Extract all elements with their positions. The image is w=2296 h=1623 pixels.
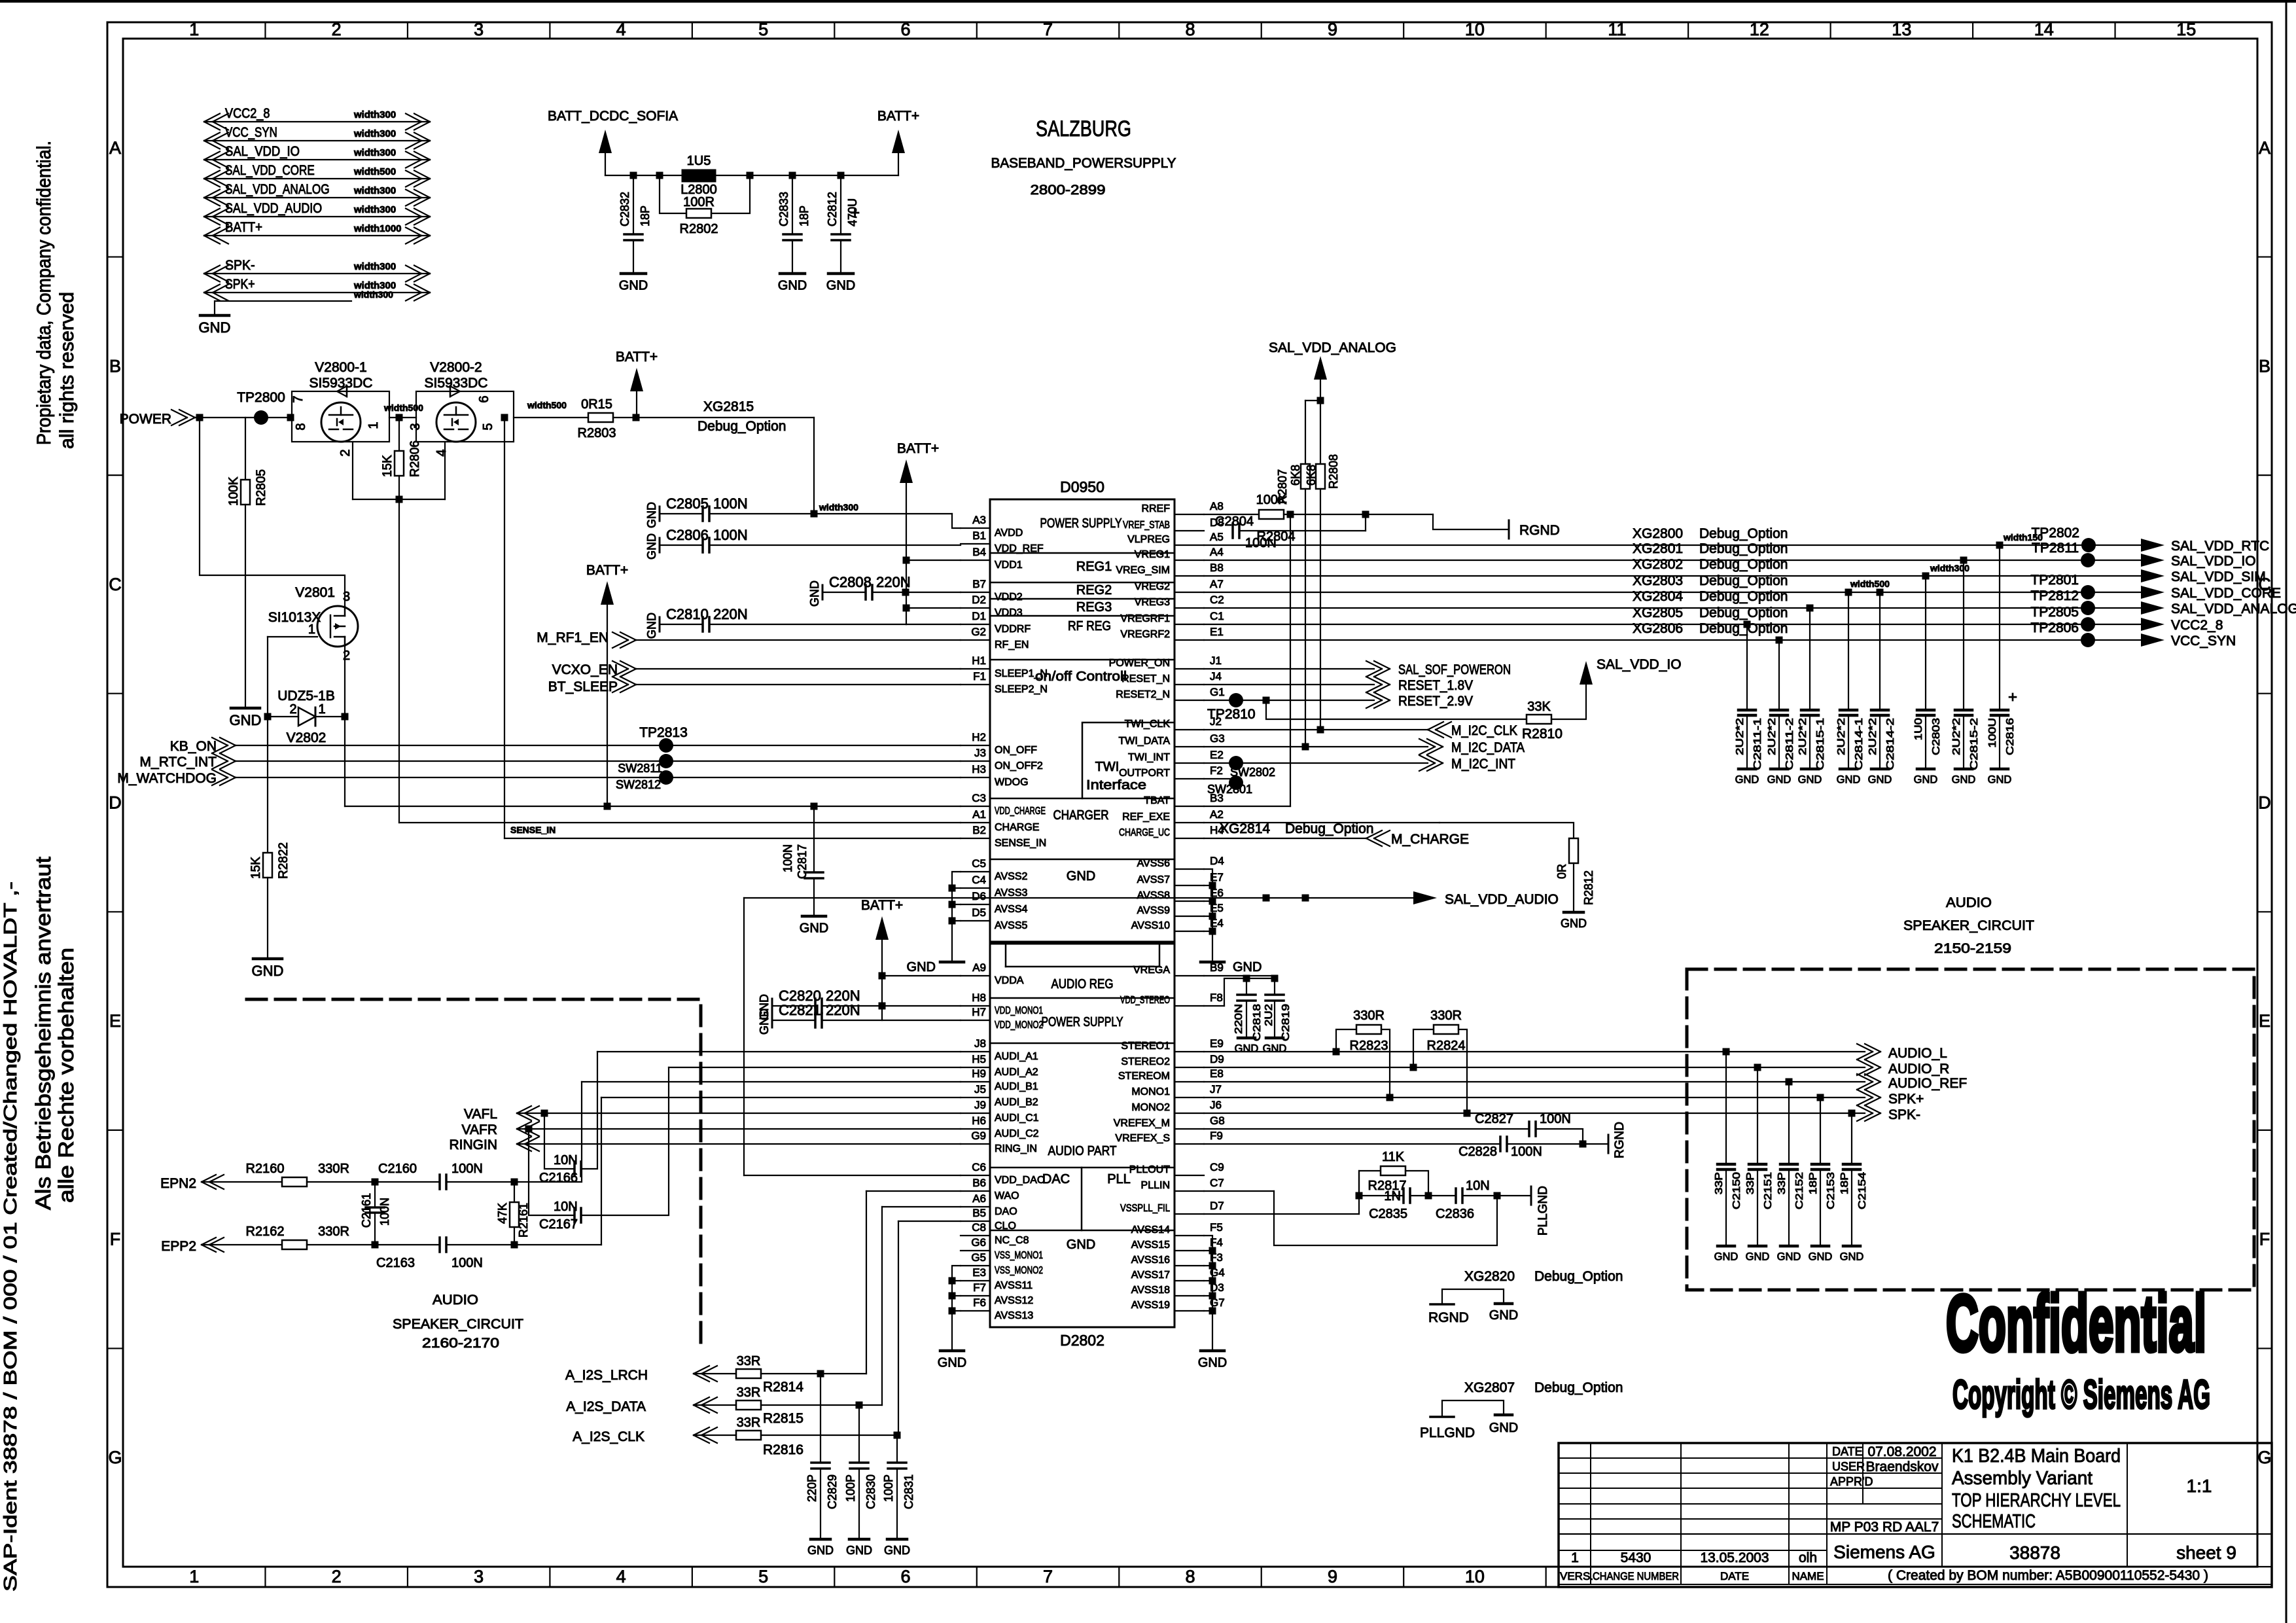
wire clo line (898, 1221, 961, 1222)
svg-text:AVSS18: AVSS18 (1131, 1285, 1170, 1296)
svg-text:GND: GND (1561, 917, 1587, 930)
svg-text:VAFL: VAFL (464, 1107, 497, 1122)
wire vdda feed (882, 975, 961, 976)
svg-text:G3: G3 (1210, 732, 1225, 745)
svg-text:RREF: RREF (1141, 503, 1170, 514)
svg-text:AVSS19: AVSS19 (1131, 1300, 1170, 1311)
svg-text:AVSS13: AVSS13 (995, 1310, 1033, 1321)
svg-text:APPR'D: APPR'D (1830, 1475, 1873, 1488)
svg-text:GND: GND (778, 278, 807, 293)
svg-text:J1: J1 (1210, 654, 1222, 667)
svg-text:GND: GND (1837, 774, 1861, 786)
dashed audio speaker box (1687, 969, 2254, 1290)
pin A1 CHARGE (961, 822, 990, 823)
svg-text:OUTPORT: OUTPORT (1119, 768, 1170, 779)
pin C5 AVSS2 (961, 871, 990, 872)
svg-text:Als Betriebsgeheimnis anvertra: Als Betriebsgeheimnis anvertraut (31, 857, 55, 1210)
svg-text:VCC2_8: VCC2_8 (2171, 618, 2223, 633)
svg-text:B9: B9 (1210, 961, 1224, 974)
wire power line (195, 417, 292, 418)
svg-text:A4: A4 (1210, 546, 1224, 558)
svg-text:TP2805: TP2805 (2030, 605, 2079, 620)
svg-text:H8: H8 (972, 991, 986, 1004)
svg-text:D7: D7 (1210, 1200, 1224, 1212)
svg-text:C2167: C2167 (539, 1217, 578, 1232)
svg-text:Debug_Option: Debug_Option (1699, 589, 1788, 604)
pin G7 AVSS19 (1174, 1310, 1204, 1311)
svg-text:AVSS9: AVSS9 (1137, 905, 1171, 916)
svg-text:GND: GND (1868, 774, 1892, 786)
svg-text:H9: H9 (972, 1067, 986, 1080)
svg-text:CLO: CLO (995, 1221, 1016, 1232)
net SAL_VDD_CORE rail (1204, 592, 2143, 593)
svg-text:C2818: C2818 (1252, 1004, 1263, 1041)
svg-text:D2802: D2802 (1060, 1332, 1104, 1349)
capacitor C2166 (544, 1113, 574, 1169)
capacitor C2819 (1265, 993, 1284, 996)
svg-text:C2153: C2153 (1826, 1172, 1837, 1209)
ic D0950 section lines (990, 552, 1174, 554)
svg-text:VCC2_8: VCC2_8 (225, 106, 270, 121)
svg-text:XG2820: XG2820 (1464, 1269, 1515, 1284)
pin E6 AVSS8 (1174, 901, 1204, 902)
svg-text:J8: J8 (974, 1037, 986, 1050)
svg-text:G6: G6 (971, 1236, 986, 1249)
wire XG2815 drop (813, 418, 815, 514)
svg-text:BASEBAND_POWERSUPPLY: BASEBAND_POWERSUPPLY (991, 156, 1176, 171)
pin C8 NC_C8 (961, 1235, 990, 1236)
svg-text:220P: 220P (805, 1474, 819, 1502)
pin H3 WDOG (961, 777, 990, 778)
svg-text:A1: A1 (972, 808, 986, 821)
svg-text:PLLOUT: PLLOUT (1129, 1164, 1170, 1175)
pin D1 VDDRF (961, 624, 990, 625)
svg-text:VDD_STEREO: VDD_STEREO (1120, 995, 1170, 1006)
net SPK+ rail (1204, 1097, 1865, 1098)
svg-text:220N: 220N (826, 1002, 860, 1018)
wire sense feed (504, 418, 505, 838)
svg-text:330R: 330R (1353, 1008, 1385, 1023)
net VCC2_8 rail (1204, 624, 2143, 625)
svg-text:VSSPLL_FIL: VSSPLL_FIL (1120, 1203, 1170, 1214)
svg-text:07.08.2002: 07.08.2002 (1867, 1444, 1936, 1459)
svg-text:SALZBURG: SALZBURG (1036, 116, 1131, 141)
svg-text:2: 2 (343, 649, 350, 663)
svg-text:AVSS14: AVSS14 (1131, 1224, 1170, 1236)
svg-text:8: 8 (294, 423, 308, 430)
wire fet2 to R2803 (514, 417, 588, 418)
svg-text:GND: GND (808, 580, 821, 607)
pin J3 ON_OFF2 (961, 760, 990, 762)
capacitor C2167 (529, 1129, 574, 1215)
svg-text:1: 1 (308, 622, 315, 637)
svg-text:330R: 330R (1430, 1008, 1462, 1023)
svg-text:VERS.: VERS. (1560, 1570, 1593, 1582)
svg-text:2160-2170: 2160-2170 (422, 1336, 499, 1351)
pin F5 AVSS14 (1174, 1235, 1204, 1236)
svg-text:100N: 100N (713, 495, 748, 512)
svg-text:2U2*2: 2U2*2 (1797, 718, 1809, 755)
svg-text:RGND: RGND (1613, 1122, 1627, 1158)
svg-text:GND: GND (846, 1544, 872, 1557)
svg-text:AUDIO: AUDIO (1946, 895, 1992, 910)
svg-text:D6: D6 (972, 890, 986, 902)
svg-text:C2832: C2832 (618, 192, 631, 226)
svg-text:R2803: R2803 (578, 426, 616, 440)
pin F8 VDD_STEREO (1174, 1005, 1204, 1007)
svg-text:E8: E8 (1210, 1067, 1224, 1080)
svg-text:C9: C9 (1210, 1161, 1224, 1173)
svg-text:CHARGE: CHARGE (995, 822, 1039, 833)
svg-text:MONO1: MONO1 (1131, 1086, 1170, 1097)
wire vdd1 feed (906, 560, 961, 561)
svg-text:PLL: PLL (1107, 1172, 1131, 1186)
svg-text:100P: 100P (844, 1474, 857, 1502)
svg-text:TP2813: TP2813 (639, 725, 688, 740)
svg-text:BATT+: BATT+ (897, 441, 939, 456)
wire step to AVDD (952, 514, 961, 528)
svg-text:AUDI_C1: AUDI_C1 (995, 1113, 1039, 1124)
svg-text:+: + (2008, 688, 2017, 706)
svg-text:SAL_VDD_AUDIO: SAL_VDD_AUDIO (1445, 892, 1559, 907)
svg-text:38878: 38878 (2009, 1543, 2060, 1563)
svg-text:AVSS8: AVSS8 (1137, 890, 1171, 901)
svg-text:VREG3: VREG3 (1135, 597, 1170, 608)
net XG2814 M_CHARGE (1204, 838, 1366, 839)
pin A4 VREG1 (1174, 560, 1204, 561)
svg-text:M_I2C_CLK: M_I2C_CLK (1451, 723, 1517, 738)
svg-text:VLPREG: VLPREG (1127, 534, 1170, 545)
svg-text:C2821: C2821 (779, 1002, 821, 1018)
svg-text:Braendskov: Braendskov (1866, 1459, 1939, 1474)
svg-text:SAL_VDD_CORE: SAL_VDD_CORE (2171, 586, 2281, 601)
capacitor C2818 (1246, 978, 1247, 995)
wire vdd_dac feed (744, 1175, 961, 1176)
svg-text:SW2811: SW2811 (618, 762, 662, 775)
svg-text:VDD_MONO1: VDD_MONO1 (995, 1005, 1043, 1016)
pin H2 ON_OFF (961, 745, 990, 746)
capacitor C2831 (896, 1435, 898, 1463)
svg-text:VDDA: VDDA (995, 975, 1024, 986)
switch node SW2812 (659, 770, 673, 785)
svg-text:H5: H5 (972, 1053, 986, 1065)
svg-text:GND: GND (1067, 1238, 1095, 1252)
pin B5 CLO (961, 1221, 990, 1222)
svg-text:GND: GND (1489, 1308, 1518, 1323)
pin E3 AVSS11 (961, 1280, 990, 1281)
svg-text:TP2801: TP2801 (2030, 573, 2079, 588)
svg-text:SW2801: SW2801 (1207, 783, 1252, 796)
svg-text:2150-2159: 2150-2159 (1934, 941, 2011, 956)
svg-text:E1: E1 (1210, 626, 1224, 638)
resistor R2807 (1305, 400, 1320, 401)
pin B6 WAO (961, 1190, 990, 1192)
capacitor C2810 (659, 617, 661, 632)
svg-text:3: 3 (474, 1567, 484, 1586)
svg-text:R2824: R2824 (1427, 1039, 1466, 1053)
svg-text:100R: 100R (683, 195, 715, 209)
wire avss right bracket (1204, 869, 1212, 961)
svg-text:V2800-2: V2800-2 (430, 360, 482, 375)
svg-text:XG2801: XG2801 (1633, 541, 1683, 556)
svg-text:UDZ5-1B: UDZ5-1B (277, 688, 335, 704)
svg-text:alle Rechte vorbehalten: alle Rechte vorbehalten (54, 948, 78, 1203)
pin A6 DAO (961, 1206, 990, 1207)
pin D4 AVSS6 (1174, 868, 1204, 870)
wire top rail (605, 175, 898, 176)
svg-text:SAL_VDD_ANALOG: SAL_VDD_ANALOG (2171, 601, 2296, 616)
svg-text:PLLGND: PLLGND (1536, 1186, 1550, 1236)
svg-text:R2808: R2808 (1327, 454, 1340, 489)
svg-text:C6: C6 (972, 1161, 986, 1173)
svg-text:1: 1 (189, 1567, 199, 1586)
svg-text:TP2812: TP2812 (2030, 588, 2079, 603)
svg-text:G: G (108, 1448, 122, 1467)
svg-text:K1 B2.4B Main Board: K1 B2.4B Main Board (1952, 1446, 2121, 1467)
ground avss15-19 (1201, 1349, 1224, 1353)
svg-text:33R: 33R (737, 1354, 761, 1368)
svg-text:GND: GND (1263, 1043, 1287, 1055)
svg-text:C2151: C2151 (1763, 1172, 1774, 1209)
resistor R2817 (1381, 1166, 1405, 1175)
svg-text:13: 13 (1892, 20, 1911, 39)
pin F3 AVSS16 (1174, 1265, 1204, 1266)
svg-text:SPK-: SPK- (225, 258, 255, 273)
wire vsspll net (1204, 1213, 1359, 1215)
svg-text:M_I2C_DATA: M_I2C_DATA (1451, 740, 1525, 755)
svg-text:BATT+: BATT+ (877, 109, 919, 124)
pin J2 TWI_CLK (1174, 729, 1204, 730)
svg-text:VDDRF: VDDRF (995, 624, 1031, 635)
svg-text:C4: C4 (972, 874, 986, 886)
net SAL_VDD_CORE header arrow (204, 178, 430, 179)
svg-text:12: 12 (1750, 20, 1769, 39)
svg-text:width300: width300 (353, 185, 396, 196)
svg-text:6: 6 (477, 395, 491, 402)
svg-text:4: 4 (616, 20, 626, 39)
svg-text:A2: A2 (1210, 808, 1224, 821)
svg-text:D1: D1 (972, 610, 986, 622)
svg-text:TP2806: TP2806 (2030, 620, 2079, 635)
rgnd terminal audio (1608, 1135, 1610, 1153)
svg-text:A: A (2259, 138, 2270, 158)
pin C7 PLLIN (1174, 1190, 1204, 1192)
pin F9 VREFEX_S (1174, 1143, 1204, 1145)
svg-text:Assembly Variant: Assembly Variant (1952, 1468, 2093, 1489)
pin G8 VREFEX_M (1174, 1128, 1204, 1130)
svg-text:C2811-2: C2811-2 (1784, 718, 1795, 770)
pin J1 POWER_ON (1174, 668, 1204, 669)
svg-text:Debug_Option: Debug_Option (1534, 1380, 1623, 1395)
svg-text:Confidential: Confidential (1946, 1279, 2206, 1368)
svg-text:220N: 220N (876, 574, 911, 590)
svg-text:AUDIO_R: AUDIO_R (1888, 1061, 1949, 1077)
svg-text:6: 6 (901, 20, 911, 39)
capacitor C2163 (375, 1244, 440, 1245)
svg-text:Debug_Option: Debug_Option (1699, 605, 1788, 620)
svg-text:GND: GND (826, 278, 855, 293)
svg-text:33P: 33P (1714, 1172, 1725, 1194)
net M_I2C_DATA (1204, 746, 1428, 747)
svg-text:width300: width300 (353, 128, 396, 139)
pin E9 STEREO1 (1174, 1051, 1204, 1052)
capacitor C2821 (771, 1013, 773, 1027)
svg-text:AVSS11: AVSS11 (995, 1280, 1033, 1291)
svg-text:VDD2: VDD2 (995, 592, 1023, 603)
svg-text:R2802: R2802 (680, 222, 718, 236)
svg-text:WDOG: WDOG (995, 777, 1029, 788)
svg-text:M_RF1_EN: M_RF1_EN (537, 630, 609, 645)
pin C9 PLLOUT (1174, 1175, 1204, 1176)
svg-text:width300: width300 (353, 109, 396, 120)
svg-text:J3: J3 (974, 747, 986, 759)
svg-text:GND: GND (938, 1355, 966, 1370)
svg-text:ON_OFF2: ON_OFF2 (995, 760, 1043, 772)
svg-text:VCC_SYN: VCC_SYN (2171, 633, 2236, 649)
capacitor C2154 (1851, 1113, 1852, 1164)
svg-text:330R: 330R (318, 1162, 349, 1176)
pin A8 RREF (1174, 514, 1204, 515)
svg-text:2U2*2: 2U2*2 (1735, 718, 1746, 755)
pin A7 VREG2 (1174, 592, 1204, 593)
pin J4 RESET_N (1174, 684, 1204, 685)
svg-text:VDD3: VDD3 (995, 607, 1023, 618)
svg-text:GND: GND (645, 502, 658, 528)
svg-text:POWER: POWER (120, 412, 171, 427)
svg-text:all rights reserved: all rights reserved (56, 292, 78, 449)
svg-text:C2154: C2154 (1857, 1172, 1868, 1209)
svg-text:E2: E2 (1210, 749, 1224, 761)
svg-text:AUDI_A2: AUDI_A2 (995, 1067, 1038, 1078)
pin D3 AVSS18 (1174, 1295, 1204, 1296)
svg-text:0R: 0R (1555, 864, 1568, 879)
svg-text:POWER_ON: POWER_ON (1109, 658, 1170, 669)
pin J5 AUDI_B2 (961, 1097, 990, 1098)
wire audi_a1 line (597, 1051, 961, 1052)
svg-text:width500: width500 (383, 402, 423, 413)
svg-text:1: 1 (318, 702, 325, 717)
svg-text:KB_ON: KB_ON (170, 739, 217, 754)
svg-text:XG2803: XG2803 (1633, 573, 1683, 588)
pin F7 AVSS12 (961, 1295, 990, 1296)
svg-text:NAME: NAME (1792, 1570, 1824, 1582)
rgnd terminal (1508, 520, 1510, 539)
net SAL_VDD_ANALOG rail (1204, 607, 2143, 609)
svg-text:C2808: C2808 (829, 574, 872, 590)
svg-text:100N: 100N (1540, 1112, 1571, 1126)
svg-text:GND: GND (1235, 1043, 1259, 1055)
svg-text:AUDIO REG: AUDIO REG (1051, 977, 1114, 991)
pin B4 VDD1 (961, 560, 990, 561)
svg-text:100U: 100U (1987, 718, 1998, 748)
svg-text:VREGA: VREGA (1133, 965, 1170, 976)
capacitor C2835 (1359, 1171, 1404, 1196)
svg-text:REG3: REG3 (1076, 600, 1112, 615)
svg-text:100N: 100N (451, 1256, 483, 1270)
wire vdd3 feed (906, 607, 961, 609)
svg-text:SPK+: SPK+ (225, 277, 255, 292)
net AUDIO_L rail (1204, 1051, 1865, 1052)
ground left avss (940, 961, 964, 964)
svg-text:C2815-1: C2815-1 (1815, 718, 1826, 770)
svg-text:1U5: 1U5 (687, 154, 711, 168)
svg-text:R2815: R2815 (763, 1411, 804, 1426)
svg-text:width300: width300 (819, 502, 858, 512)
wire charger vdd feed (344, 717, 345, 806)
svg-text:B1: B1 (972, 529, 986, 542)
capacitor C2820 (771, 999, 773, 1013)
svg-text:on/off Controll: on/off Controll (1035, 669, 1127, 684)
net RESET_2.9V (1204, 700, 1374, 701)
svg-text:GND: GND (1988, 774, 2012, 786)
svg-text:BATT+: BATT+ (225, 220, 262, 235)
pin B8 VREG_SIM (1174, 575, 1204, 577)
wire V2801 gate (268, 636, 317, 637)
svg-text:C2160: C2160 (378, 1162, 417, 1176)
svg-text:AVSS5: AVSS5 (995, 920, 1028, 931)
net SPK+ header arrow (204, 292, 430, 293)
svg-text:STEREO2: STEREO2 (1121, 1056, 1170, 1067)
net SAL_VDD_AUDIO (744, 897, 1421, 899)
wire vdd_stereo net (1204, 1005, 1224, 1007)
svg-text:H1: H1 (972, 654, 986, 667)
svg-text:AVDD: AVDD (995, 527, 1023, 539)
svg-text:C7: C7 (1210, 1177, 1224, 1189)
svg-text:VSS_MONO2: VSS_MONO2 (995, 1265, 1043, 1276)
wire vddrf feed (906, 624, 961, 625)
pin H7 VDD_MONO2 (961, 1020, 990, 1021)
svg-text:GND: GND (252, 963, 284, 979)
svg-text:XG2805: XG2805 (1633, 605, 1683, 620)
svg-text:XG2802: XG2802 (1633, 557, 1683, 572)
svg-text:C2: C2 (1210, 594, 1224, 606)
net SAL_VDD_AUDIO header arrow (204, 216, 430, 217)
svg-text:C5: C5 (972, 857, 986, 870)
svg-text:D5: D5 (972, 906, 986, 919)
svg-text:AVSS2: AVSS2 (995, 871, 1028, 882)
resistor R2802 (660, 175, 686, 213)
svg-text:2: 2 (338, 449, 353, 456)
svg-text:VREFEX_S: VREFEX_S (1115, 1133, 1170, 1144)
pin G9 RING_IN (961, 1143, 990, 1145)
pin A5 VLPREG (1174, 544, 1204, 546)
pin E8 STEREOM (1174, 1081, 1204, 1082)
svg-text:100N: 100N (378, 1198, 391, 1226)
svg-text:15K: 15K (249, 857, 263, 879)
net RESET_1.8V (1204, 684, 1374, 685)
svg-text:BATT+: BATT+ (861, 898, 903, 913)
capacitor C2829 (820, 1374, 821, 1463)
resistor R2814 (736, 1369, 761, 1378)
inductor L2800 (682, 169, 716, 182)
pin H5 AUDI_A2 (961, 1067, 990, 1068)
svg-text:VREFEX_M: VREFEX_M (1114, 1118, 1170, 1129)
svg-text:SPEAKER_CIRCUIT: SPEAKER_CIRCUIT (393, 1317, 523, 1332)
capacitor C2815-1 (1807, 605, 1814, 612)
wire avss left bracket (952, 872, 961, 961)
net SAL_VDD_IO header arrow (204, 159, 430, 160)
svg-text:RF REG: RF REG (1068, 619, 1111, 633)
svg-text:GND: GND (1809, 1251, 1833, 1263)
svg-text:A3: A3 (972, 514, 986, 526)
svg-text:100K: 100K (227, 476, 241, 506)
svg-text:SAL_VDD_IO: SAL_VDD_IO (2171, 554, 2256, 569)
svg-text:Debug_Option: Debug_Option (1699, 557, 1788, 572)
svg-text:MP P03 RD AAL7: MP P03 RD AAL7 (1830, 1520, 1939, 1535)
ic D2802 outline (990, 944, 1174, 1327)
svg-text:TWI_CLK: TWI_CLK (1125, 719, 1171, 730)
svg-text:A7: A7 (1210, 578, 1224, 590)
